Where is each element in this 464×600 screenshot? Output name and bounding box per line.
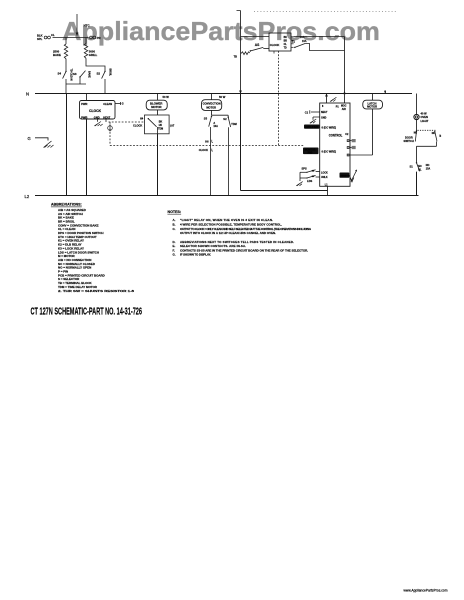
wire latch return <box>372 109 374 155</box>
control right pin B <box>347 146 355 149</box>
wire convection feed <box>211 94 213 100</box>
clock output symbol <box>108 124 113 131</box>
arrow AS junction <box>239 91 242 94</box>
ground control top <box>330 97 336 101</box>
wire lamp to door switch <box>416 120 418 131</box>
svg-text:ABBREVIATIONS:: ABBREVIATIONS: <box>51 203 82 207</box>
sensor probe <box>350 170 357 182</box>
switch S1 <box>294 43 344 50</box>
grill element 3000W <box>84 38 105 72</box>
svg-text:CT 127N SCHEMATIC-PART NO. 14-: CT 127N SCHEMATIC-PART NO. 14-31-726 <box>31 307 143 318</box>
wire latch feed <box>372 94 374 101</box>
wire L1 drop <box>241 94 328 191</box>
oven lamp <box>414 114 419 119</box>
wire blower feed <box>157 94 159 101</box>
wire convection split <box>212 110 229 115</box>
blower motor M1 <box>146 100 167 110</box>
wire element return <box>66 94 68 196</box>
sensor module <box>340 173 350 178</box>
wire door to S5b <box>416 146 418 162</box>
watermark <box>62 16 380 47</box>
svg-text:IF SHOWN TO DISPLAY.: IF SHOWN TO DISPLAY. <box>180 253 211 257</box>
switch AS <box>250 47 269 51</box>
ground control left <box>310 119 316 123</box>
notes list <box>173 218 312 257</box>
control gnd stub <box>313 117 320 120</box>
switch S4 <box>63 71 67 94</box>
svg-text:"LIGHT" RELAY ON, WHEN THE OVE: "LIGHT" RELAY ON, WHEN THE OVEN IS 3 EXI… <box>180 218 273 222</box>
svg-text:G.: G. <box>173 253 176 257</box>
NTC arrow <box>76 14 79 36</box>
thermal element TB <box>241 52 250 55</box>
clock module <box>80 101 116 120</box>
relay pin stub <box>273 51 275 54</box>
control board U1 <box>320 103 350 186</box>
latch motor M3 <box>363 100 383 109</box>
svg-text:A.: A. <box>173 218 176 222</box>
switch SPS <box>300 170 320 173</box>
arrow control feed <box>325 93 328 96</box>
wire dotted top link <box>254 11 398 13</box>
amplifier module <box>304 125 320 129</box>
wire relay feed <box>241 36 270 38</box>
terminal circles left <box>44 36 50 39</box>
switch S2 <box>102 71 106 94</box>
control right pin A <box>347 139 355 142</box>
wire clock feed <box>86 94 88 101</box>
blower thermostat box <box>145 115 170 134</box>
wire dashed clock to blower stat <box>109 121 145 123</box>
svg-text:NOTES:: NOTES: <box>168 210 182 214</box>
svg-text:C.: C. <box>173 227 176 231</box>
switch LDS <box>300 175 320 178</box>
terminal block TB wire <box>53 37 89 39</box>
switch TDM conv <box>228 115 231 195</box>
blower stat contact <box>148 118 158 134</box>
switch S5b <box>416 162 420 195</box>
clock HEAT stub <box>105 119 107 122</box>
ground clock <box>94 122 102 127</box>
clock clean stub to G <box>115 102 121 105</box>
wire switch common <box>299 172 301 181</box>
wire lamp feed <box>416 94 418 115</box>
abbreviations list <box>58 208 135 293</box>
svg-text:www.AppliancePartsPros.com: www.AppliancePartsPros.com <box>404 588 448 592</box>
wire control top feed <box>326 94 328 104</box>
switch S5 conv <box>209 116 213 196</box>
svg-text:2. THR SW = SHUNTS RESISTOR 1-: 2. THR SW = SHUNTS RESISTOR 1-8 <box>58 289 135 293</box>
switch S3 <box>66 71 86 84</box>
bus L2 <box>35 195 419 197</box>
relay unit CLOCK <box>269 33 291 51</box>
convection motor M2 <box>202 100 222 111</box>
bake element 2500W <box>64 38 67 72</box>
wire latch feed upper <box>294 37 345 104</box>
terminal circles right <box>90 36 96 39</box>
monitor pad module <box>303 148 319 155</box>
wire dashed clock drop <box>109 122 111 146</box>
door switch <box>415 130 437 146</box>
clock GND stub <box>97 119 99 122</box>
wire clock PWR return <box>86 119 88 196</box>
wire dashed relay to control <box>278 51 280 146</box>
ground switches <box>296 182 302 186</box>
ground chassis G <box>44 141 54 148</box>
wire AS top corner <box>237 11 241 94</box>
wire control bottom <box>327 186 329 195</box>
svg-text:OUTPUT INTO CLOCK IN A 1/2 HP: OUTPUT INTO CLOCK IN A 1/2 HP CLEAN HRS … <box>180 231 276 235</box>
capacitor C1 stub <box>310 110 320 113</box>
bus N <box>35 93 412 95</box>
relay pin ticks <box>291 37 294 48</box>
wire G stub <box>35 138 48 141</box>
control right pin C latch <box>347 154 372 156</box>
wire blower return <box>157 134 159 196</box>
wire blower to stat <box>157 110 159 115</box>
wire dashed clock to control <box>110 145 304 147</box>
